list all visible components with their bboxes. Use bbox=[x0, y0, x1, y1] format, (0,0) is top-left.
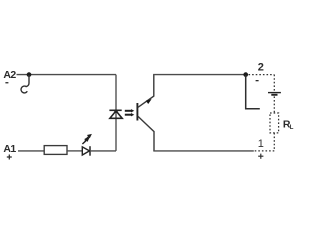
dashed external wire to terminal 1 bbox=[254, 150, 274, 152]
light coupling arrow lower bbox=[125, 113, 135, 116]
battery cell short plate bbox=[271, 94, 277, 96]
wire resistor to LED bbox=[67, 150, 82, 152]
node junction dot at terminal 2 bbox=[243, 72, 248, 77]
phototransistor collector lead (to bottom rail) bbox=[138, 116, 154, 150]
phototransistor emitter lead (arrow, to top rail) bbox=[138, 75, 154, 108]
plug-in contact L at terminal 2 bbox=[246, 75, 260, 109]
wire vertical opto input bbox=[115, 75, 117, 151]
polarity minus at A2 bbox=[5, 82, 8, 83]
node junction dot at A2 bbox=[27, 72, 32, 77]
polarity minus at terminal 2 bbox=[256, 80, 259, 81]
wire LED to opto bbox=[90, 150, 116, 152]
battery cell long plate bbox=[268, 92, 281, 94]
dashed external wire down to battery bbox=[273, 75, 275, 92]
svg-text:L: L bbox=[290, 125, 294, 131]
polarity plus at A1 bbox=[7, 155, 12, 160]
wire A2 top-left horizontal bbox=[17, 74, 117, 76]
dashed external wire from node 2 bbox=[249, 74, 275, 76]
svg-text:1: 1 bbox=[258, 138, 264, 150]
opto LED triangle D1 bbox=[110, 111, 122, 118]
svg-text:A2: A2 bbox=[3, 69, 16, 81]
LED light arrow 1 bbox=[82, 138, 89, 145]
light coupling arrow upper bbox=[125, 109, 135, 112]
phototransistor emitter arrowhead bbox=[146, 99, 152, 104]
LED light arrow 2 bbox=[85, 134, 92, 141]
wire bottom right horizontal bbox=[153, 150, 254, 152]
wire A1 to resistor bbox=[18, 150, 44, 152]
dashed wire load to node 1 bbox=[273, 133, 275, 151]
plug-in contact hook at A2 bbox=[21, 75, 29, 93]
phototransistor Q1 base bar bbox=[136, 103, 138, 121]
opto LED cathode bar bbox=[109, 109, 121, 111]
svg-text:A1: A1 bbox=[3, 143, 16, 155]
dashed wire battery to load bbox=[273, 96, 275, 113]
load resistor RL dashed box bbox=[270, 113, 279, 133]
polarity plus at terminal 1 bbox=[258, 154, 263, 159]
indicator LED triangle bbox=[82, 147, 89, 155]
svg-text:2: 2 bbox=[258, 62, 264, 74]
resistor R1 box bbox=[44, 146, 67, 155]
wire top right horizontal bbox=[153, 74, 246, 76]
indicator LED cathode bar bbox=[89, 146, 91, 156]
